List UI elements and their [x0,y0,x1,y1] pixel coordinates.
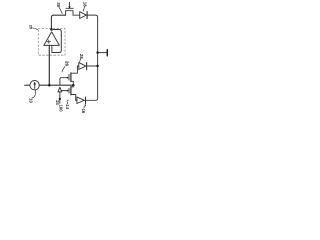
diode D2 (right middle) [79,63,86,70]
node dot transistor pair [72,84,75,87]
op-amp U1 [44,32,60,46]
label 20 leader [32,28,38,30]
node A dot [48,84,51,87]
label 30 leader [59,7,62,14]
dashed box (amplifier block) [38,28,65,55]
diode D4 (bottom) [77,97,84,103]
label 28 leader [80,59,81,62]
diode D1 (top) [80,12,87,19]
wire: op-amp input riser down to node A [48,45,50,85]
svg-text:10: 10 [29,98,34,103]
label 14 leader [67,100,68,104]
svg-text:18: 18 [83,2,88,7]
label 10 leader [32,90,36,98]
svg-text:16: 16 [81,109,86,114]
transistor Q1 (top, horizontal channel) [66,11,80,16]
svg-text:28: 28 [79,54,84,59]
label 18 leader [83,7,85,12]
wire: op-amp output riser to top [51,15,65,29]
label 16 leader [84,106,86,109]
svg-text:100: 100 [58,105,63,113]
label 26 leader [62,67,65,72]
wire: main horizontal (node A) [39,84,73,86]
node: output junction dot [50,28,53,31]
terminal stub and bar [98,52,107,54]
svg-text:14: 14 [65,104,70,109]
svg-text:20: 20 [28,25,32,29]
wire: feedback loop [52,30,62,53]
diode D3 (pointing up, below node wire) [58,87,62,92]
transistor Q3 (lower right, vertical channel) [62,90,67,92]
svg-text:26: 26 [64,61,69,67]
svg-text:30: 30 [56,2,61,7]
current source I1 [25,84,30,86]
wire: top rail to right and down (right rail) [86,15,98,100]
transistor Q2 (upper right, vertical channel) [71,66,79,73]
node dot on rail at stub [96,51,98,53]
